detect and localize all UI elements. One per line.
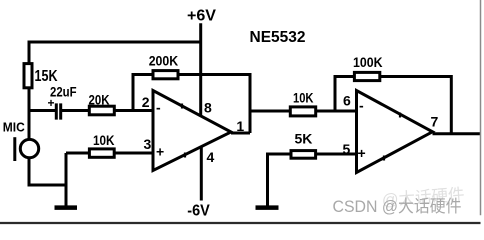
+6V rail wire (29, 42, 201, 63)
resistor 100K body (354, 72, 379, 80)
svg-text:2: 2 (142, 94, 150, 110)
feedback 2 wire to output (381, 77, 451, 134)
feedback tap wire (133, 75, 152, 111)
wire mic bottom to ground run (29, 158, 66, 186)
ground bar 1 (55, 205, 78, 210)
op-amp U1A triangle (153, 91, 231, 171)
svg-text:10K: 10K (293, 91, 314, 106)
svg-text:-6V: -6V (187, 202, 210, 219)
svg-text:-: - (156, 100, 161, 116)
microphone MIC circle (20, 139, 38, 157)
microphone MIC bar (13, 137, 16, 161)
resistor 10K pin3 body (89, 149, 114, 157)
op-amp U1B triangle (357, 91, 433, 173)
pin 8 stub tick U1A (181, 104, 183, 109)
wire node to capacitor (29, 109, 55, 112)
frame right border (480, 0, 482, 215)
svg-text:-: - (359, 97, 364, 113)
frame bottom border (0, 222, 481, 224)
output wire pin 1 (231, 132, 250, 135)
svg-text:3: 3 (144, 136, 152, 152)
svg-text:5: 5 (343, 141, 351, 157)
svg-text:7: 7 (431, 113, 439, 129)
pin 4 stub tick U1B (383, 156, 385, 161)
capacitor C1 22uF plates (56, 103, 60, 119)
wire 10K to pin 3 (116, 152, 154, 155)
resistor 10K pin6 body (290, 107, 315, 116)
svg-text:CSDN @大话硬件: CSDN @大话硬件 (333, 197, 462, 216)
wire 5K left to ground (268, 154, 290, 206)
wire pin3 branch vertical (65, 153, 68, 206)
svg-text:200K: 200K (149, 52, 179, 68)
wire 15K to input node (28, 89, 31, 141)
interstage wire (250, 110, 290, 113)
svg-text:4: 4 (207, 149, 215, 165)
wire capacitor to 20K (62, 109, 89, 112)
wire 10K to pin 6 (317, 110, 357, 113)
resistor 5K body (291, 151, 316, 159)
pin 4 stub tick U1A (184, 153, 186, 158)
feedback wire to output node (180, 75, 251, 134)
svg-text:1: 1 (236, 118, 244, 134)
output wire pin 7 (433, 132, 481, 135)
svg-text:15K: 15K (35, 68, 59, 85)
svg-text:+: + (358, 145, 366, 161)
svg-text:100K: 100K (353, 54, 383, 70)
svg-text:10K: 10K (93, 133, 115, 148)
wire 5K to pin 5 (317, 153, 357, 156)
pin 8 stub tick U1B (399, 113, 401, 118)
svg-text:8: 8 (204, 100, 212, 116)
svg-text:+: + (156, 144, 164, 160)
svg-text:5K: 5K (295, 131, 313, 147)
svg-text:6: 6 (343, 93, 351, 109)
svg-text:+: + (48, 96, 55, 110)
wire to 10K pin3 (66, 152, 88, 155)
ground bar 2 (256, 205, 279, 210)
resistor 15K body (24, 64, 32, 88)
feedback 2 tap wire (335, 77, 353, 112)
svg-text:MIC: MIC (3, 120, 26, 135)
svg-text:NE5532: NE5532 (250, 29, 306, 46)
resistor 200K body (153, 71, 178, 79)
svg-text:+6V: +6V (187, 8, 216, 25)
pin 4 wire (200, 147, 203, 201)
wire 20K to pin 2 (116, 109, 154, 112)
+6V supply wire (199, 23, 202, 116)
svg-text:20K: 20K (89, 92, 110, 107)
resistor 20K body (89, 106, 114, 115)
